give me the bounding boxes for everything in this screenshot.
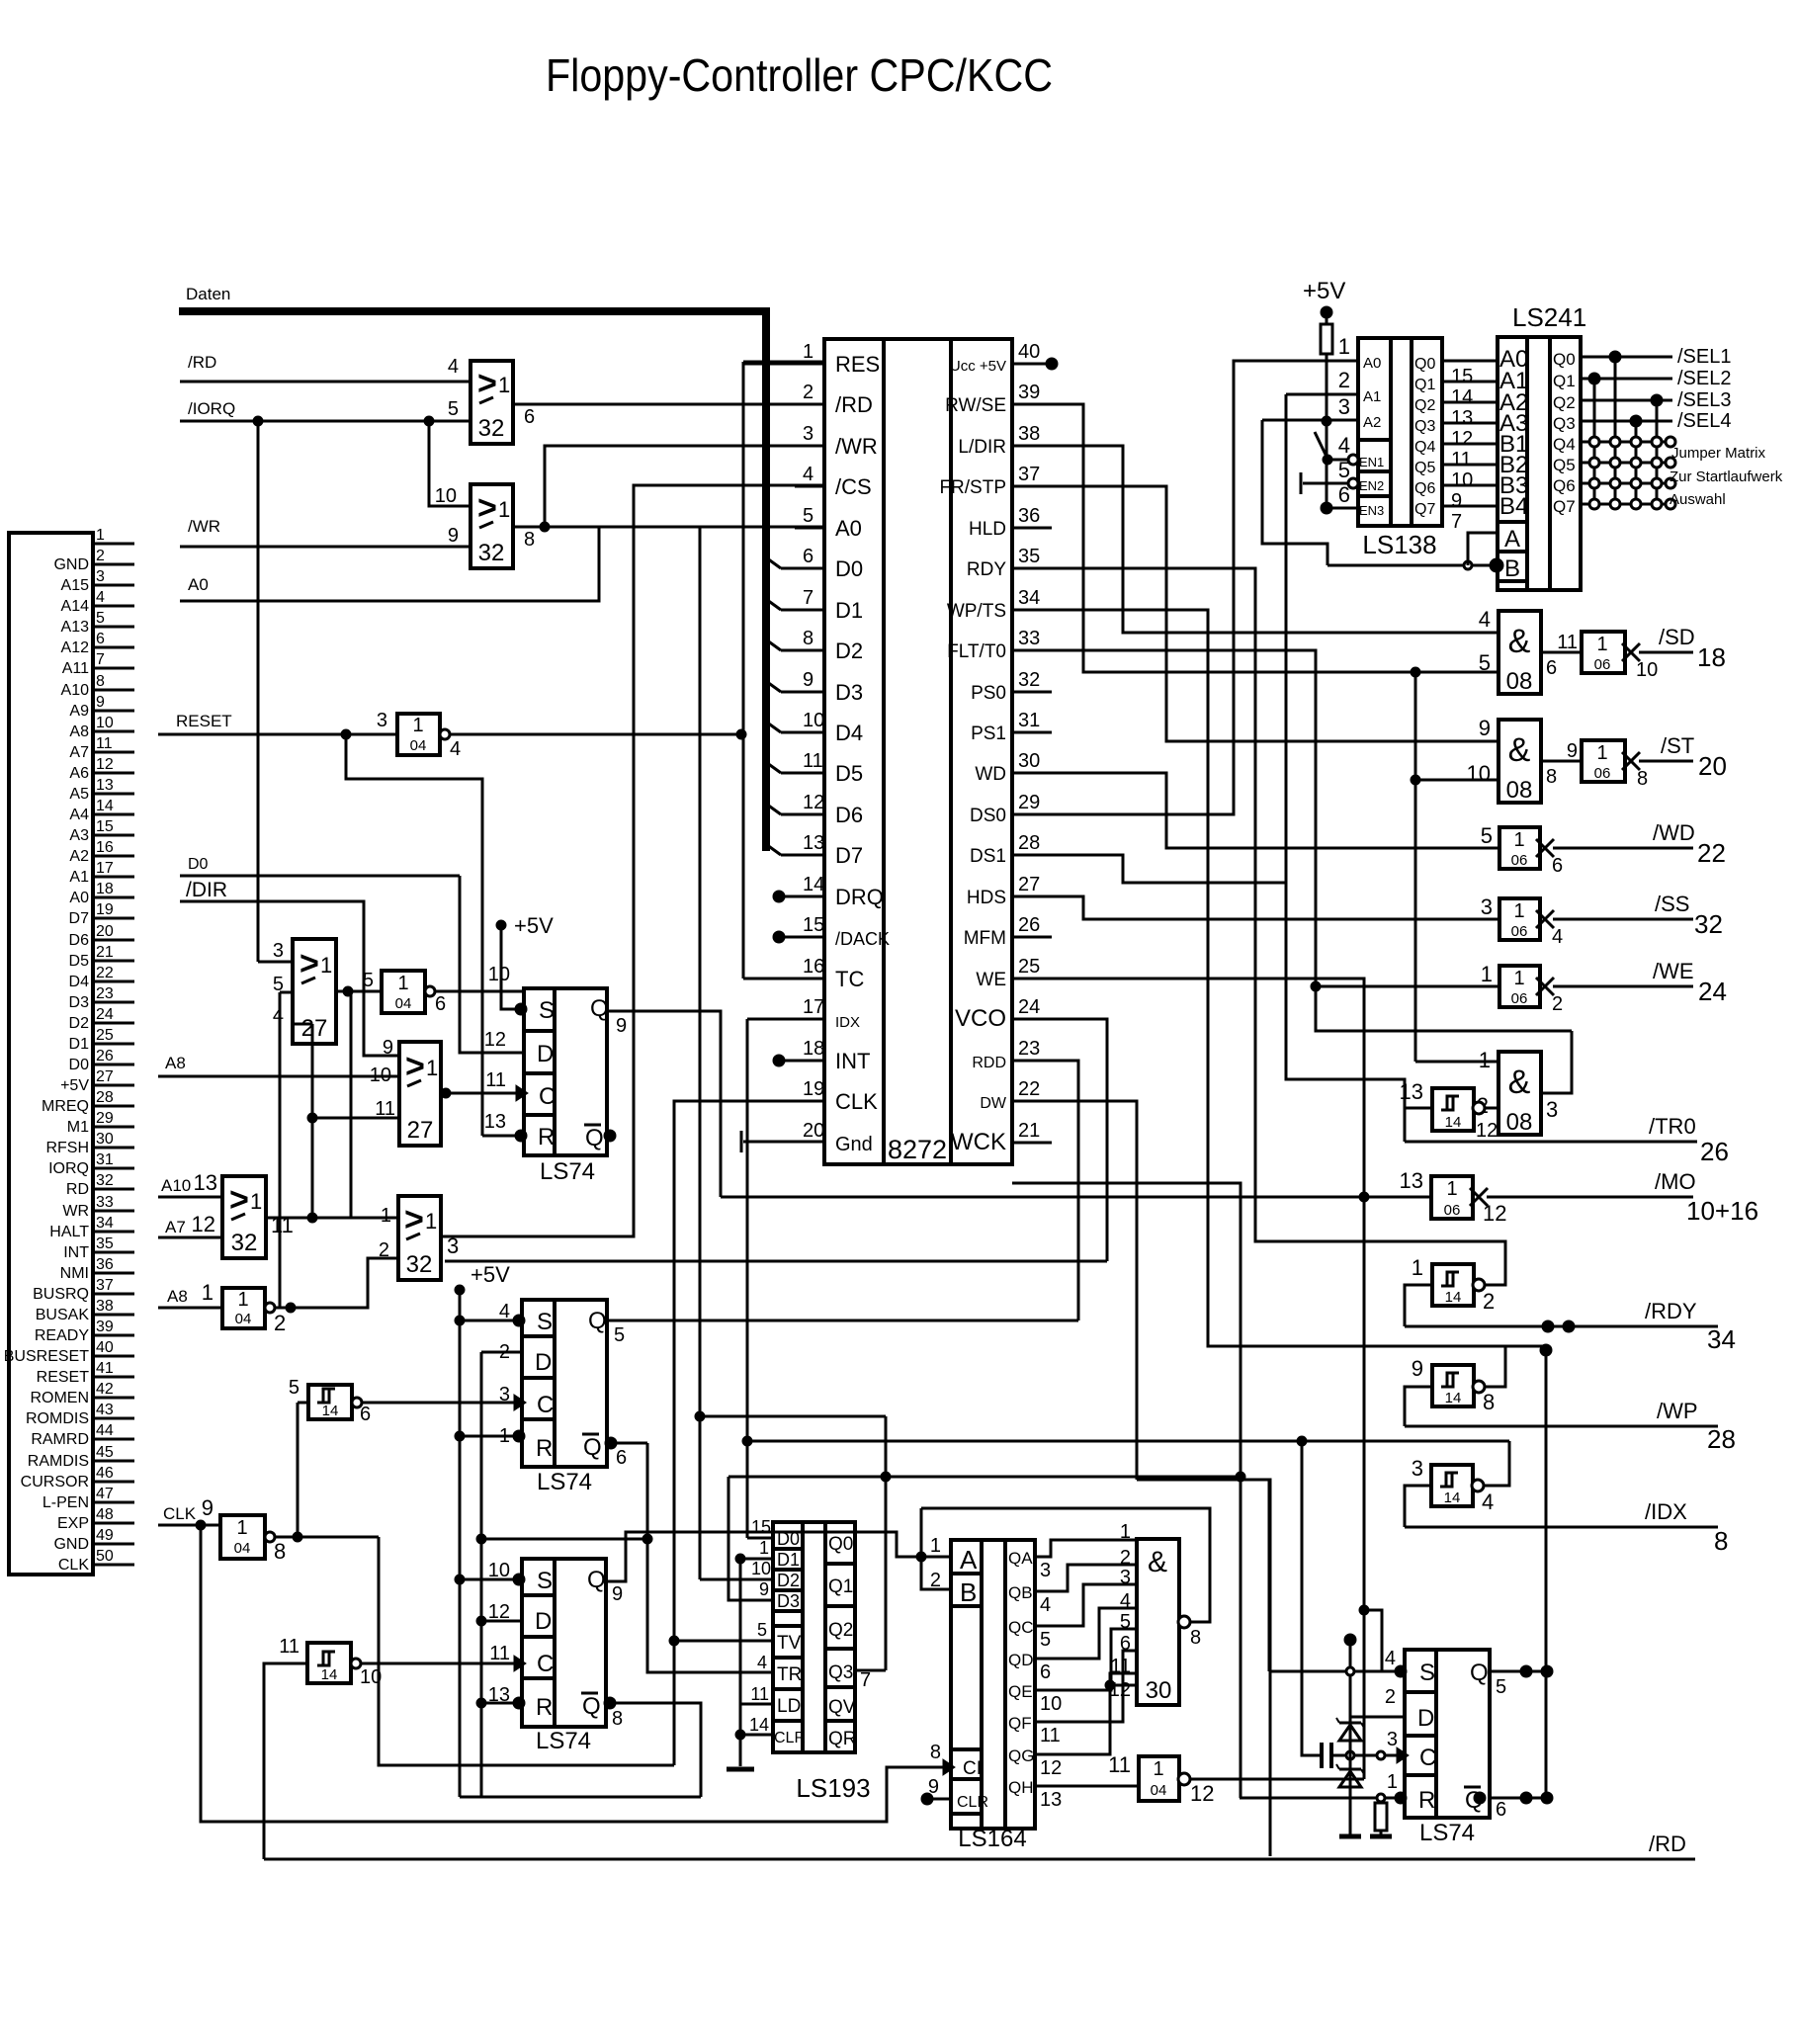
wire 14e in	[1405, 1387, 1432, 1426]
svg-text:40: 40	[1018, 341, 1040, 363]
svg-text:10: 10	[803, 710, 824, 731]
svg-text:A8: A8	[165, 1054, 186, 1072]
svg-text:Q2: Q2	[828, 1620, 853, 1641]
wire DW route	[1052, 1101, 1137, 1480]
svg-text:A1: A1	[69, 869, 89, 886]
wire LS74d Q	[1490, 1670, 1547, 1673]
svg-text:1: 1	[498, 373, 510, 397]
svg-text:/RD: /RD	[1649, 1831, 1686, 1856]
svg-text:41: 41	[96, 1360, 114, 1377]
svg-text:HALT: HALT	[49, 1224, 89, 1240]
wire WCK route	[1012, 1183, 1241, 1798]
svg-text:36: 36	[1018, 505, 1040, 527]
junction CLK	[196, 1520, 206, 1530]
wire LS74c Qbar	[606, 1703, 701, 1797]
wire EN3	[1327, 507, 1358, 510]
counter LS193 body	[773, 1522, 855, 1752]
svg-text:A13: A13	[61, 619, 90, 636]
diode rail top dot	[1344, 1634, 1356, 1646]
svg-text:Q1: Q1	[1553, 372, 1576, 390]
wire QA to gate30	[1035, 1540, 1137, 1557]
wire LS74d D	[1350, 1716, 1405, 1719]
wire VCO route	[1052, 1019, 1107, 1261]
wire FLT route	[1052, 650, 1572, 1031]
wire QE to gate30	[1035, 1629, 1137, 1690]
junction TV	[669, 1636, 679, 1646]
svg-text:Q6: Q6	[1553, 476, 1576, 495]
svg-text:S: S	[537, 1309, 553, 1335]
junction en3	[1321, 502, 1332, 514]
svg-text:/MO: /MO	[1655, 1169, 1696, 1194]
svg-text:32: 32	[478, 415, 505, 442]
svg-text:8: 8	[803, 628, 813, 649]
wire LS193 CLR	[740, 1734, 773, 1737]
svg-text:15: 15	[803, 914, 824, 936]
svg-text:33: 33	[96, 1194, 114, 1211]
connector pin 15	[93, 834, 134, 837]
svg-text:8: 8	[96, 673, 105, 690]
svg-text:RESET: RESET	[176, 712, 232, 730]
+5V b rail	[459, 1290, 462, 1797]
wire Q6 to LS241	[1442, 484, 1498, 487]
and-gate 08a	[1498, 611, 1541, 694]
svg-text:31: 31	[1018, 710, 1040, 731]
svg-text:06: 06	[1594, 656, 1611, 673]
junction 27b out	[441, 1088, 451, 1098]
wire WP/TS route	[1052, 610, 1546, 1346]
Daten bus tap D3	[763, 679, 781, 692]
connector pin 8	[93, 689, 134, 692]
svg-text:06: 06	[1594, 765, 1611, 782]
svg-text:10: 10	[435, 485, 457, 507]
wire /WP	[1405, 1425, 1718, 1428]
svg-text:11: 11	[1040, 1725, 1061, 1746]
svg-text:5: 5	[363, 970, 374, 991]
svg-text:MFM: MFM	[964, 928, 1006, 949]
svg-text:10: 10	[96, 715, 114, 731]
svg-text:RW/SE: RW/SE	[945, 395, 1006, 416]
svg-text:14: 14	[1445, 1390, 1462, 1406]
svg-text:R: R	[536, 1694, 553, 1721]
svg-text:26: 26	[1018, 914, 1040, 936]
svg-text:A7: A7	[165, 1218, 186, 1236]
wire LS193 Q3 out	[855, 1669, 886, 1672]
LS138 EN2 bubble	[1348, 478, 1358, 488]
wire 32c out	[266, 1217, 398, 1220]
svg-text:A15: A15	[61, 577, 90, 594]
svg-text:24: 24	[96, 1006, 114, 1023]
wire QF to gate30	[1035, 1651, 1137, 1722]
svg-text:D5: D5	[835, 761, 863, 786]
connector pin 22	[93, 980, 134, 983]
svg-text:1: 1	[425, 1209, 437, 1234]
svg-text:10: 10	[1636, 659, 1658, 681]
junction MO	[1359, 1192, 1369, 1202]
svg-text:49: 49	[96, 1527, 114, 1544]
wire sel3	[1581, 399, 1672, 402]
svg-text:5: 5	[803, 505, 813, 527]
svg-text:5: 5	[1120, 1611, 1131, 1633]
diode D2	[1339, 1768, 1361, 1771]
svg-text:Q0: Q0	[1414, 356, 1435, 373]
wire Q3 feedback	[728, 1476, 1241, 1479]
connector pin 37	[93, 1293, 134, 1296]
svg-text:9: 9	[803, 669, 813, 691]
svg-text:D2: D2	[69, 1015, 90, 1032]
svg-text:27: 27	[96, 1068, 114, 1085]
svg-text:/DIR: /DIR	[186, 879, 227, 901]
svg-text:/RD: /RD	[188, 353, 216, 372]
svg-text:13: 13	[96, 777, 114, 794]
svg-text:/WD: /WD	[1653, 820, 1695, 845]
svg-text:&: &	[1508, 1064, 1531, 1101]
diode D1	[1339, 1722, 1361, 1725]
svg-text:8272: 8272	[888, 1135, 947, 1164]
wire /SD	[1639, 651, 1693, 654]
svg-text:37: 37	[1018, 464, 1040, 485]
svg-text:4: 4	[1120, 1590, 1131, 1612]
flip-flop LS74a body	[524, 988, 607, 1155]
svg-text:14: 14	[803, 874, 824, 895]
connector pin 28	[93, 1105, 134, 1108]
svg-text:26: 26	[96, 1048, 114, 1065]
8272 pin 15 /DACK open stub	[773, 931, 785, 943]
svg-text:5: 5	[1479, 650, 1491, 675]
LS164 CLR dot	[921, 1793, 933, 1805]
svg-text:14: 14	[96, 798, 114, 814]
svg-text:HDS: HDS	[967, 888, 1006, 908]
svg-text:D7: D7	[835, 843, 863, 868]
svg-text:3: 3	[273, 940, 284, 962]
svg-text:R: R	[1418, 1787, 1435, 1814]
wire LS74d R	[1240, 1797, 1405, 1800]
nor-gate 27b	[399, 1042, 441, 1146]
svg-text:3: 3	[377, 710, 387, 731]
svg-text:TV: TV	[777, 1633, 802, 1654]
svg-text:Q3: Q3	[1553, 414, 1576, 433]
wire Q2 to LS241	[1442, 401, 1498, 404]
svg-text:32: 32	[406, 1251, 433, 1278]
svg-text:RESET: RESET	[37, 1369, 90, 1386]
svg-text:Q6: Q6	[1414, 480, 1435, 497]
connector pin 27	[93, 1084, 134, 1087]
wire Q5 to LS241	[1442, 464, 1498, 467]
svg-text:24: 24	[1018, 996, 1040, 1018]
svg-text:EN2: EN2	[1359, 478, 1384, 493]
svg-text:1: 1	[1120, 1521, 1131, 1543]
connector pin 19	[93, 917, 134, 920]
wire /SS	[1553, 918, 1693, 921]
8272 pin 14 DRQ open stub	[773, 891, 785, 902]
svg-text:FR/STP: FR/STP	[939, 477, 1006, 498]
svg-text:A4: A4	[69, 807, 89, 823]
resistor R2	[1375, 1803, 1387, 1831]
svg-text:LS74: LS74	[540, 1158, 595, 1185]
svg-text:6: 6	[1120, 1633, 1131, 1655]
svg-text:9: 9	[759, 1579, 769, 1599]
wire A8	[158, 1075, 399, 1078]
wire MO line	[721, 1196, 1431, 1199]
svg-text:8: 8	[1483, 1390, 1495, 1414]
svg-text:IORQ: IORQ	[48, 1160, 89, 1177]
wire LS193 TV	[674, 1640, 773, 1643]
svg-text:QC: QC	[1008, 1618, 1034, 1637]
svg-text:12: 12	[488, 1601, 510, 1623]
junction x1564	[1540, 1344, 1552, 1356]
svg-text:26: 26	[1700, 1137, 1729, 1166]
wire S left	[1268, 1480, 1271, 1671]
svg-text:19: 19	[96, 901, 114, 918]
svg-text:31: 31	[96, 1151, 114, 1168]
svg-text:10: 10	[1040, 1693, 1062, 1715]
wire 14b in from /RD	[264, 1663, 307, 1859]
svg-text:DRQ: DRQ	[835, 885, 884, 909]
svg-text:Daten: Daten	[186, 285, 230, 303]
ground r	[1370, 1834, 1392, 1839]
connector pin 12	[93, 772, 134, 775]
svg-text:>: >	[477, 365, 497, 402]
svg-text:/SD: /SD	[1659, 625, 1695, 649]
wire /IORQ down to 27-1	[257, 421, 260, 962]
svg-text:44: 44	[96, 1422, 114, 1439]
connector pin 17	[93, 876, 134, 879]
svg-text:28: 28	[1018, 832, 1040, 854]
svg-text:Auswahl: Auswahl	[1670, 491, 1726, 508]
svg-text:Q3: Q3	[828, 1662, 853, 1683]
schmitt 14c /TR0	[1432, 1088, 1474, 1131]
connector pin 29	[93, 1126, 134, 1129]
8272 pin 40 Ucc dot	[1046, 358, 1058, 370]
Daten bus tap D2	[763, 638, 781, 650]
svg-text:D: D	[1417, 1705, 1434, 1732]
wire +5V a to S	[501, 925, 524, 1009]
flip-flop LS74b body	[522, 1300, 607, 1467]
svg-text:DS0: DS0	[970, 806, 1006, 826]
svg-text:GND: GND	[53, 1536, 89, 1553]
svg-text:10: 10	[488, 964, 510, 985]
svg-text:1: 1	[1481, 962, 1493, 986]
svg-text:7: 7	[1451, 511, 1462, 533]
inverter 06d /SS	[1499, 898, 1540, 940]
connector pin 24	[93, 1022, 134, 1025]
wire Q3 to LS241	[1442, 422, 1498, 425]
svg-text:12: 12	[1476, 1120, 1498, 1142]
wire A1 in	[1286, 393, 1358, 396]
schmitt 14e /WP	[1432, 1365, 1474, 1406]
svg-text:33: 33	[1018, 628, 1040, 649]
junction c2	[1377, 1751, 1385, 1759]
svg-text:7: 7	[803, 587, 813, 609]
svg-text:1: 1	[759, 1538, 769, 1558]
svg-text:14: 14	[322, 1403, 339, 1419]
svg-text:7: 7	[860, 1669, 871, 1691]
schmitt 14f /IDX	[1431, 1465, 1473, 1506]
wire QD to gate30	[1035, 1608, 1137, 1659]
svg-text:08: 08	[1506, 668, 1533, 695]
svg-text:4: 4	[448, 356, 459, 378]
svg-text:/SEL1: /SEL1	[1677, 346, 1731, 368]
svg-text:3: 3	[1412, 1456, 1423, 1481]
svg-text:Q3: Q3	[1414, 418, 1435, 435]
junction rdy a	[1542, 1320, 1554, 1332]
wire 04c out	[275, 1258, 398, 1308]
svg-text:12: 12	[1451, 428, 1473, 450]
wire LS164 loop	[921, 1508, 1210, 1622]
or-gate 32a /RD+/IORQ	[471, 361, 513, 444]
wire /IORQ	[180, 420, 471, 423]
svg-text:Q4: Q4	[1553, 435, 1576, 454]
svg-text:A5: A5	[69, 786, 89, 803]
flip-flop LS74c body	[522, 1559, 606, 1727]
svg-text:14: 14	[749, 1715, 769, 1735]
inverter 04a RESET	[397, 714, 440, 755]
svg-text:D2: D2	[777, 1571, 800, 1590]
svg-text:21: 21	[96, 944, 114, 961]
svg-text:45: 45	[96, 1444, 114, 1461]
svg-text:S: S	[537, 1568, 553, 1594]
svg-text:>: >	[300, 945, 319, 982]
svg-text:12: 12	[484, 1029, 506, 1051]
svg-text:4: 4	[1482, 1490, 1494, 1514]
junction RES/TC	[736, 729, 746, 739]
svg-text:CLR: CLR	[774, 1730, 806, 1746]
inverter 06e /WE	[1499, 966, 1540, 1007]
svg-text:3: 3	[1040, 1560, 1051, 1581]
svg-text:4: 4	[1479, 607, 1491, 632]
svg-text:C: C	[537, 1651, 554, 1677]
wire D0 to top LS74 D	[460, 876, 524, 1053]
svg-text:18: 18	[1697, 642, 1726, 672]
svg-text:C: C	[1419, 1745, 1436, 1771]
svg-text:A11: A11	[62, 660, 89, 677]
IC 8272 body	[824, 339, 1012, 1164]
svg-text:QB: QB	[1008, 1583, 1033, 1602]
svg-text:6: 6	[1040, 1661, 1051, 1683]
EN2 gnd tick	[1300, 472, 1303, 494]
junction rdy b	[1563, 1320, 1575, 1332]
svg-text:VCO: VCO	[955, 1005, 1006, 1032]
junction 27a out	[343, 986, 353, 996]
wire /WE	[1553, 985, 1693, 988]
connector pin 11	[93, 751, 134, 754]
svg-text:Q: Q	[588, 1308, 607, 1334]
wire LS164 AB tie	[921, 1557, 951, 1589]
svg-text:6: 6	[524, 406, 535, 428]
svg-text:11: 11	[1557, 632, 1578, 653]
svg-text:39: 39	[96, 1319, 114, 1335]
svg-text:08: 08	[1506, 1109, 1533, 1136]
svg-text:/WR: /WR	[835, 434, 878, 459]
svg-text:4: 4	[1385, 1648, 1396, 1669]
svg-text:/TR0: /TR0	[1649, 1114, 1696, 1139]
svg-text:QH: QH	[1008, 1778, 1034, 1797]
svg-text:14: 14	[1445, 1114, 1462, 1131]
svg-text:06: 06	[1444, 1202, 1461, 1219]
wire gateC net	[1316, 985, 1499, 988]
svg-text:5: 5	[1481, 823, 1493, 848]
svg-text:/ST: /ST	[1661, 733, 1694, 758]
wire /TR0	[1405, 1141, 1697, 1144]
svg-text:+5V: +5V	[1303, 278, 1345, 304]
svg-text:B: B	[1504, 555, 1520, 582]
wire WE route	[1052, 979, 1364, 1779]
svg-text:27: 27	[301, 1015, 328, 1042]
junction RESET	[341, 729, 351, 739]
svg-text:32: 32	[96, 1172, 114, 1189]
connector pin 26	[93, 1064, 134, 1066]
svg-text:11: 11	[803, 750, 823, 772]
wire LS74c S	[460, 1578, 522, 1581]
svg-text:8: 8	[1637, 768, 1648, 790]
svg-text:/WE: /WE	[1653, 959, 1694, 983]
svg-text:EN1: EN1	[1359, 455, 1384, 469]
svg-text:2: 2	[1483, 1289, 1495, 1314]
svg-text:1: 1	[1338, 334, 1350, 359]
wire LS193 D1	[740, 1558, 773, 1561]
connector pin 20	[93, 939, 134, 942]
svg-text:D0: D0	[777, 1529, 800, 1549]
svg-text:CLR: CLR	[957, 1794, 988, 1811]
LS74a Qbar dot	[604, 1130, 616, 1142]
wire y1557	[481, 1538, 647, 1541]
svg-text:QF: QF	[1008, 1714, 1032, 1733]
svg-text:D5: D5	[69, 953, 90, 970]
svg-text:9: 9	[96, 694, 105, 711]
wire 14c out	[1485, 1107, 1498, 1110]
svg-text:3: 3	[1546, 1097, 1558, 1122]
Daten bus tap D1	[763, 597, 781, 610]
wire LS74a Q	[607, 1011, 721, 1197]
svg-text:D1: D1	[777, 1550, 800, 1570]
svg-text:39: 39	[1018, 382, 1040, 403]
connector pin 31	[93, 1167, 134, 1170]
svg-text:18: 18	[96, 881, 114, 897]
svg-text:INT: INT	[63, 1244, 89, 1261]
svg-text:12: 12	[1483, 1201, 1506, 1226]
wire to 8272 /WR	[545, 446, 824, 527]
svg-text:28: 28	[96, 1089, 114, 1106]
svg-text:11: 11	[96, 735, 113, 752]
svg-text:4: 4	[757, 1653, 767, 1672]
wire LS193 LD stub	[740, 1703, 773, 1706]
svg-text:CLK: CLK	[163, 1504, 197, 1523]
svg-text:11: 11	[1451, 449, 1472, 470]
wire WD route	[1052, 773, 1499, 848]
wire 14c in	[1405, 1108, 1432, 1142]
svg-text:20: 20	[96, 923, 114, 940]
svg-text:1: 1	[1596, 742, 1607, 764]
svg-text:11: 11	[279, 1636, 300, 1658]
shift-register LS164 body	[951, 1540, 1035, 1829]
svg-text:19: 19	[803, 1078, 824, 1100]
svg-text:14: 14	[1451, 386, 1473, 408]
buffer LS241 body	[1498, 337, 1581, 590]
svg-text:9: 9	[448, 525, 459, 547]
svg-text:RDD: RDD	[972, 1055, 1006, 1071]
wire 27a in4	[293, 1023, 312, 1026]
Daten bus tap D0	[763, 555, 781, 568]
svg-text:12: 12	[192, 1212, 215, 1236]
connector pin 25	[93, 1043, 134, 1046]
svg-text:12: 12	[1190, 1781, 1214, 1806]
svg-text:2: 2	[1120, 1547, 1131, 1569]
connector pin 49	[93, 1543, 134, 1546]
wire 04b out	[435, 990, 524, 993]
svg-text:A2: A2	[69, 848, 89, 865]
svg-text:35: 35	[1018, 546, 1040, 567]
svg-text:/SEL2: /SEL2	[1677, 368, 1731, 389]
svg-text:4: 4	[1338, 433, 1350, 458]
